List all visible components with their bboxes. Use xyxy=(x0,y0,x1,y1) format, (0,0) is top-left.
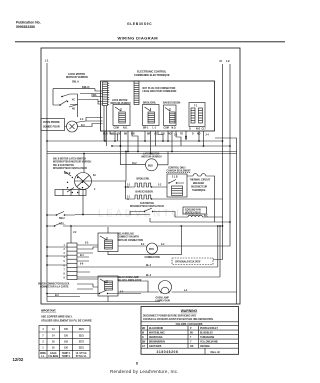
svg-text:WHITE/BLANC: WHITE/BLANC xyxy=(149,332,165,335)
svg-text:TEMP C: TEMP C xyxy=(62,353,71,355)
svg-text:CALIBRE: CALIBRE xyxy=(48,355,58,358)
svg-text:5995383386: 5995383386 xyxy=(16,25,35,29)
electronic control box U1 xyxy=(101,81,215,131)
connector P2 ladder xyxy=(134,81,139,105)
svg-text:IMPORTANT:: IMPORTANT: xyxy=(41,310,56,313)
oven probe label box xyxy=(41,119,65,131)
convection motor xyxy=(147,243,158,254)
svg-text:INTERRUPTEUR MOTEUR VERROU: INTERRUPTEUR MOTEUR VERROU xyxy=(53,162,92,164)
wire L1 to connector xyxy=(47,247,67,265)
svg-text:MTR: MTR xyxy=(149,249,154,251)
svg-text:INTERRUPTEUR VENTILATEUR: INTERRUPTEUR VENTILATEUR xyxy=(130,205,164,208)
svg-text:CONNECTION: CONNECTION xyxy=(145,257,161,259)
svg-text:CONNECT-ON WITH: CONNECT-ON WITH xyxy=(118,237,140,239)
wire connector top A.D.L. xyxy=(70,226,72,243)
wire connector to relay R2 xyxy=(77,267,220,289)
thermal circuit breaker CB1 xyxy=(167,174,187,197)
svg-text:SW/GB CONNECTOR BLOCK: SW/GB CONNECTOR BLOCK xyxy=(38,284,70,286)
svg-text:318046206: 318046206 xyxy=(157,350,179,354)
svg-text:CM: CM xyxy=(131,134,135,136)
svg-text:BAKE/CUISSON: BAKE/CUISSON xyxy=(136,191,154,194)
svg-text:BL-2: BL-2 xyxy=(146,265,152,267)
switch SW A contact 2 xyxy=(62,94,78,97)
svg-text:SW-2: SW-2 xyxy=(59,218,65,220)
colors legend table xyxy=(141,321,239,323)
svg-text:16-2: 16-2 xyxy=(132,163,137,165)
wire lamp row xyxy=(118,281,237,292)
svg-text:BU: BU xyxy=(190,333,194,335)
svg-text:OR: OR xyxy=(190,346,194,348)
svg-text:COM: COM xyxy=(164,128,169,130)
switch cam bar xyxy=(55,190,86,196)
relay oven lamp R2 xyxy=(98,276,118,296)
svg-text:BROIL/GRIL: BROIL/GRIL xyxy=(137,179,151,181)
title rule xyxy=(15,41,285,43)
svg-text:UL STYLE: UL STYLE xyxy=(76,353,87,355)
svg-text:YELLOW/JAUNE: YELLOW/JAUNE xyxy=(200,341,218,344)
svg-text:BLUE/BLEU: BLUE/BLEU xyxy=(200,333,213,335)
switch SW A contact 1 xyxy=(60,101,67,106)
svg-text:USE COPPER WIRE ONLY.: USE COPPER WIRE ONLY. xyxy=(41,316,73,319)
switch SW B rotary xyxy=(75,173,92,190)
wire connector to relay R1 xyxy=(77,245,98,261)
svg-text:3321: 3321 xyxy=(79,348,85,350)
svg-text:3321: 3321 xyxy=(79,335,85,337)
svg-text:MA: MA xyxy=(93,94,97,97)
wire bottom switch xyxy=(47,290,141,294)
svg-text:MOTEUR VERROU: MOTEUR VERROU xyxy=(66,76,88,79)
wire bus y222 y226 xyxy=(150,221,230,223)
svg-text:SW. B MOTOR LATCH SWITCH: SW. B MOTOR LATCH SWITCH xyxy=(53,158,86,161)
svg-text:MOTEUR CONNECTION: MOTEUR CONNECTION xyxy=(118,240,144,242)
optional dashed box xyxy=(172,258,213,265)
wire bus y153.5 xyxy=(47,153,237,155)
svg-text:WIRING DIAGRAM: WIRING DIAGRAM xyxy=(118,36,159,41)
svg-text:PURPLE/VIOLET: PURPLE/VIOLET xyxy=(200,328,219,330)
svg-text:6(BLU): 6(BLU) xyxy=(82,87,90,89)
svg-text:TEMP C: TEMP C xyxy=(62,356,71,358)
svg-text:GRAY/GRIS: GRAY/GRIS xyxy=(149,345,162,348)
wire bus y151.5 xyxy=(47,151,237,153)
wire bus y214.5 xyxy=(75,214,130,216)
svg-text:RED/ROUGE: RED/ROUGE xyxy=(149,337,163,339)
svg-text:3321: 3321 xyxy=(79,329,85,331)
svg-text:BR-1: BR-1 xyxy=(143,128,149,130)
svg-text:WIRE: WIRE xyxy=(40,353,46,355)
svg-text:Publication No.: Publication No. xyxy=(16,21,41,25)
svg-text:12/02: 12/02 xyxy=(13,357,24,362)
wire fan row xyxy=(130,212,223,218)
switch ADL xyxy=(47,212,75,216)
svg-text:CONNECTOR A LA CARTE: CONNECTOR A LA CARTE xyxy=(40,286,69,289)
transformer T1 xyxy=(189,103,205,127)
svg-text:RELAY/RELAIS: RELAY/RELAIS xyxy=(118,233,135,236)
svg-text:ORANGE: ORANGE xyxy=(200,345,210,348)
cooling fan motor xyxy=(183,207,207,214)
svg-text:N: N xyxy=(220,59,222,63)
svg-text:M1D: M1D xyxy=(148,165,153,167)
svg-text:BK: BK xyxy=(124,134,128,136)
svg-text:Rev. B: Rev. B xyxy=(211,350,221,354)
svg-text:BR: BR xyxy=(147,134,151,136)
svg-text:UTILISER SEULEMENT DU FIL DE C: UTILISER SEULEMENT DU FIL DE CUIVRE. xyxy=(41,320,93,323)
svg-text:SW. B FAN SWITCH: SW. B FAN SWITCH xyxy=(53,164,74,167)
svg-text:4B: 4B xyxy=(72,108,75,111)
diagram outer frame xyxy=(41,48,240,304)
svg-text:2 L B: 2 L B xyxy=(172,177,178,179)
svg-text:BLACK/NOIR: BLACK/NOIR xyxy=(149,327,163,330)
svg-text:OVEN LAMP: OVEN LAMP xyxy=(156,297,170,300)
wire right riser3 xyxy=(219,226,221,277)
svg-text:SONDE FOUR: SONDE FOUR xyxy=(43,126,60,129)
svg-text:OPTIONAL/FACULTATIF: OPTIONAL/FACULTATIF xyxy=(175,261,201,264)
wire bus y141 xyxy=(47,140,223,142)
svg-text:LATCH MOTOR: LATCH MOTOR xyxy=(143,153,160,156)
wire pin jogs xyxy=(110,131,181,152)
svg-text:NO: NO xyxy=(197,134,201,136)
svg-text:COM: COM xyxy=(114,128,119,130)
svg-text:COUPER LE COURANT AVANT D'EFFE: COUPER LE COURANT AVANT D'EFFECTUER UNE … xyxy=(143,318,214,321)
wire from SW A to connector xyxy=(69,94,78,117)
svg-text:GLEB30S9C: GLEB30S9C xyxy=(127,22,152,26)
control box pin stubs xyxy=(104,131,106,141)
svg-text:N.O.: N.O. xyxy=(123,128,128,130)
svg-text:L1: L1 xyxy=(45,59,49,63)
svg-text:Rendered by LeadVenture, Inc.: Rendered by LeadVenture, Inc. xyxy=(110,369,179,374)
svg-text:VENTILATEUR: VENTILATEUR xyxy=(185,211,201,214)
svg-text:DISCONNECT POWER BEFORE SERVIC: DISCONNECT POWER BEFORE SERVICING UNIT. xyxy=(143,315,197,317)
wire L2 vertical xyxy=(158,64,231,246)
svg-text:FAN SWITCH: FAN SWITCH xyxy=(140,202,154,205)
svg-text:F.L.: F.L. xyxy=(41,356,45,358)
svg-text:DISJONCTEUR: DISJONCTEUR xyxy=(191,187,208,189)
wire element feeders xyxy=(92,181,126,199)
svg-text:THERMAL CIRCUIT: THERMAL CIRCUIT xyxy=(190,179,211,182)
svg-text:SW. A: SW. A xyxy=(72,81,79,84)
wire SW B to elements xyxy=(64,154,84,215)
svg-text:N.O.: N.O. xyxy=(172,128,177,130)
svg-text:COLORS / COULEURS: COLORS / COULEURS xyxy=(176,323,203,326)
wire right riser2 xyxy=(217,226,219,267)
svg-text:4C: 4C xyxy=(72,99,75,102)
svg-text:6A: 6A xyxy=(93,174,96,177)
svg-text:8: 8 xyxy=(136,362,138,366)
wire probe leads xyxy=(65,118,103,127)
wire gauge table xyxy=(39,326,90,359)
svg-text:BN: BN xyxy=(142,342,146,344)
svg-text:BREAKER: BREAKER xyxy=(193,182,205,185)
svg-text:TD: TD xyxy=(180,134,183,136)
svg-text:TAN/HAVANE: TAN/HAVANE xyxy=(200,336,215,339)
svg-text:BAKE/CUISSON: BAKE/CUISSON xyxy=(163,102,181,105)
wire right riser xyxy=(215,138,237,304)
warning box xyxy=(141,307,239,355)
wire L1 vertical xyxy=(46,63,48,302)
connector P1 ladder xyxy=(103,82,108,106)
switch ADL 2 xyxy=(47,223,80,227)
svg-text:BROWN/BRUN: BROWN/BRUN xyxy=(149,342,165,344)
svg-text:3173: 3173 xyxy=(79,342,85,344)
svg-text:A.D.L.: A.D.L. xyxy=(59,223,66,226)
wire N vertical xyxy=(213,64,223,260)
svg-text:INTERRUPTEUR VENTILATEUR: INTERRUPTEUR VENTILATEUR xyxy=(53,167,87,170)
relay convection R1 xyxy=(98,233,118,252)
svg-text:OVEN PROBE: OVEN PROBE xyxy=(43,121,60,124)
oven lamp xyxy=(159,281,172,294)
svg-text:FICHE GRD POUR CONNEXION: FICHE GRD POUR CONNEXION xyxy=(143,91,177,93)
svg-text:L2: L2 xyxy=(226,59,230,63)
svg-text:N-O: N-O xyxy=(196,129,200,131)
svg-text:THERMIQUE: THERMIQUE xyxy=(192,190,206,192)
wire bus y146 xyxy=(112,145,230,147)
svg-text:COMMANDE ELECTRONIQUE: COMMANDE ELECTRONIQUE xyxy=(134,74,170,77)
wire lock to ladder lower pins xyxy=(78,100,103,105)
svg-text:CLT: CLT xyxy=(202,129,207,131)
svg-text:COOLING FAN: COOLING FAN xyxy=(185,208,201,211)
svg-text:GY: GY xyxy=(142,346,146,348)
svg-text:BK: BK xyxy=(142,328,146,330)
svg-text:NO: NO xyxy=(168,134,172,136)
svg-text:BL-3: BL-3 xyxy=(146,275,152,277)
svg-text:NOT PLUG FOR CONNECTION: NOT PLUG FOR CONNECTION xyxy=(143,88,176,90)
svg-text:WARNING: WARNING xyxy=(181,309,198,313)
svg-text:STYLE UL: STYLE UL xyxy=(76,356,88,358)
oven probe sensor xyxy=(67,121,78,132)
svg-text:CANADA SEULEMENT: CANADA SEULEMENT xyxy=(167,169,192,172)
wire lock box top xyxy=(53,89,95,105)
svg-text:RELAY OVEN LAMP: RELAY OVEN LAMP xyxy=(118,276,140,279)
svg-text:CONTROL ONLY: CONTROL ONLY xyxy=(168,167,186,169)
svg-text:LOCK MOTOR: LOCK MOTOR xyxy=(112,100,128,102)
wire bottom return xyxy=(47,297,160,302)
svg-text:GAGE: GAGE xyxy=(50,352,57,355)
svg-text:MOTEUR-VERROU: MOTEUR-VERROU xyxy=(142,157,162,159)
